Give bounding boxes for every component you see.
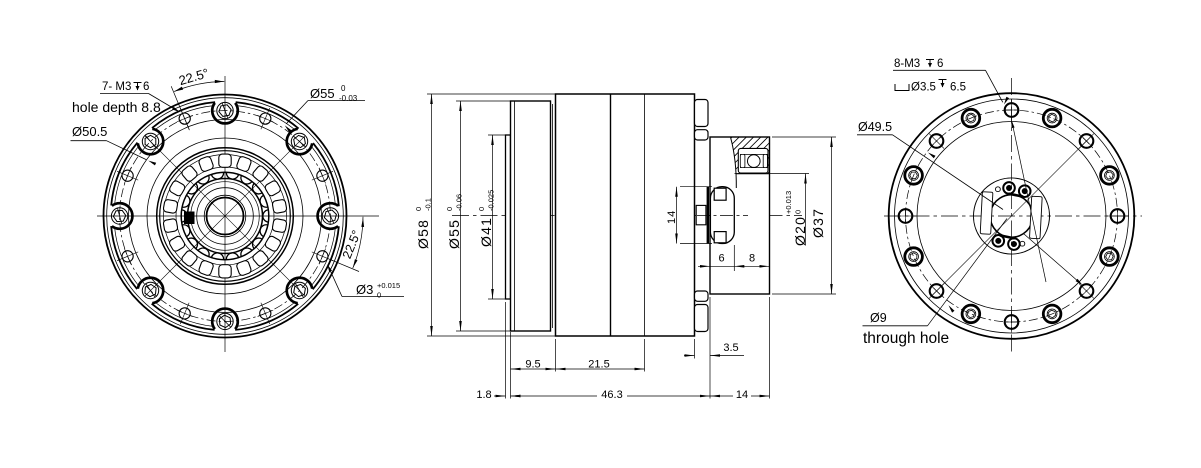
svg-text:0: 0 (477, 207, 486, 211)
hub right slot (1030, 196, 1043, 238)
label D49.5 (857, 120, 1003, 210)
svg-text:Ø3: Ø3 (356, 282, 373, 297)
svg-text:+0.015: +0.015 (377, 281, 400, 290)
output flange block D37 x14 (710, 137, 770, 294)
dimension D41 (477, 135, 506, 299)
svg-text:0: 0 (341, 84, 346, 93)
inner race keyway mark (184, 212, 195, 225)
M3 tapped hole at 22.5 deg (312, 168, 333, 184)
left view scallop inner thin circle (114, 105, 336, 327)
label counterbore D3.5 depth 6.5 (895, 80, 966, 94)
right view bolt circle D49.5 (dash-dot) (906, 110, 1118, 322)
svg-text:1.8: 1.8 (476, 389, 491, 401)
dimension D37 (772, 137, 836, 294)
screw pocket at 180 deg (112, 203, 133, 229)
label 7-M3 depth 6 (100, 81, 180, 112)
svg-text:14: 14 (666, 210, 678, 224)
center bore chamfer circle (204, 195, 246, 237)
right view vertical centerline (1011, 78, 1013, 354)
left view flange face circle (129, 120, 322, 313)
dimension D55 (445, 101, 511, 331)
label D3 +0.015 (327, 264, 404, 299)
hex socket screw at 90 deg (217, 102, 233, 118)
hub left slot (980, 192, 993, 234)
inner step circle (191, 182, 260, 251)
screw pocket at 270 deg (212, 309, 238, 330)
dimension 9.5 (511, 332, 556, 399)
middle view centerline (452, 215, 802, 217)
screw pocket at 0 deg (318, 203, 339, 229)
bearing cage inner circle (176, 167, 274, 265)
hex socket screw at 0 deg (322, 208, 338, 224)
screw pocket at 225 deg (138, 278, 163, 303)
centerline over hub (697, 215, 748, 217)
dimension 3.5 (684, 297, 744, 399)
hex socket screw at 45 deg (291, 133, 307, 149)
right M3 hole at 45 deg (1079, 134, 1094, 149)
center bore circle (207, 198, 244, 235)
svg-text:3.5: 3.5 (723, 342, 738, 354)
svg-text:7- M3: 7- M3 (102, 81, 131, 93)
middle view: side section of gearbox (414, 94, 836, 401)
right view: rear face of gearbox (857, 58, 1142, 354)
right view diagonal centerline NE-SW (932, 136, 1092, 296)
right through hole with screw at 67.5 deg (1043, 109, 1061, 127)
dimension 6 and 8 (698, 253, 770, 268)
right through hole with screw at 112.5 deg (962, 109, 980, 127)
svg-text:Ø41: Ø41 (478, 217, 494, 247)
right M3 hole at 315 deg (1079, 284, 1094, 299)
right M3 hole at 90 deg (1004, 100, 1019, 121)
svg-text:9.5: 9.5 (525, 359, 540, 371)
flexspline cup wall curve (731, 138, 737, 189)
dimension 46.3 (511, 387, 711, 401)
screw pocket at 45 deg (287, 129, 312, 154)
svg-text:Ø9: Ø9 (870, 311, 887, 325)
svg-text:14: 14 (736, 389, 748, 401)
right view outer circle (889, 93, 1135, 339)
M3 tapped hole at 112.5 deg (177, 108, 193, 129)
dimension D20 (735, 174, 810, 247)
M3 tapped hole at 337.5 deg (312, 249, 333, 265)
label 8-M3 depth 6 (893, 58, 1009, 105)
hub shoulder bold line (707, 187, 709, 244)
right M3 hole at 180 deg (895, 209, 916, 224)
left view scalloped circle D55 (111, 102, 340, 331)
svg-text:0: 0 (445, 207, 454, 211)
right through hole with screw at 22.5 deg (1101, 167, 1119, 185)
hex socket screw at 315 deg (291, 282, 307, 298)
svg-text:+0.013: +0.013 (784, 191, 793, 214)
svg-text:6.5: 6.5 (950, 82, 966, 94)
label D9 through hole (863, 219, 1008, 348)
label D50.5 (71, 124, 157, 165)
bore seat line (736, 173, 770, 175)
hub step circle (197, 188, 254, 245)
dimension 14 output (710, 297, 770, 401)
bearing inner race inner edge (188, 179, 263, 254)
svg-text:0: 0 (377, 291, 381, 300)
section hatch area (695, 137, 833, 174)
right through hole with screw at 247.5 deg (962, 305, 980, 323)
dimension 21.5 (556, 339, 645, 372)
svg-text:-0.03: -0.03 (339, 94, 358, 103)
right view rim circle (895, 99, 1129, 333)
right M3 hole at 135 deg (929, 134, 944, 149)
left view vertical centerline (224, 76, 226, 352)
right through hole with screw at 157.5 deg (905, 167, 923, 185)
svg-text:Ø55: Ø55 (446, 219, 462, 249)
svg-text:-0.1: -0.1 (424, 198, 433, 211)
svg-text:through hole: through hole (863, 330, 949, 347)
input shaft step block (696, 205, 706, 224)
ring gap lines (552, 104, 554, 328)
leader to 315deg M3 hole (1011, 120, 1082, 285)
hub face extension line (733, 245, 735, 271)
dimension 22.5 deg top (171, 65, 224, 130)
svg-text:Ø37: Ø37 (810, 208, 826, 238)
screw pocket at 315 deg (287, 278, 312, 303)
svg-text:Ø20: Ø20 (792, 216, 808, 246)
label D55 -0.03 (285, 84, 365, 132)
label hole depth 8.8 (72, 99, 161, 115)
left view: front face of gearbox (71, 65, 405, 352)
svg-text:-0.06: -0.06 (455, 194, 464, 211)
housing rim tab 1 (695, 100, 709, 127)
M3 tapped hole at 67.5 deg (258, 108, 274, 129)
hub circles and screws (967, 171, 1057, 261)
housing rim tab 3 (695, 291, 709, 301)
bearing inner race outer edge (181, 172, 269, 260)
svg-text:Ø49.5: Ø49.5 (858, 120, 892, 134)
housing joint line thin (644, 94, 646, 336)
dimension 22.5 deg right (329, 217, 364, 272)
hex socket screw at 180 deg (111, 208, 127, 224)
svg-text:Ø55: Ø55 (310, 86, 335, 101)
screw pocket at 90 deg (212, 103, 238, 124)
output bearing cross-section (738, 148, 768, 173)
input flange plate D41 x1.8 (506, 135, 511, 299)
svg-text:6: 6 (937, 58, 943, 70)
svg-text:0: 0 (414, 207, 423, 211)
left view outer flange circle D58 (104, 95, 347, 338)
M3 tapped hole at 247.5 deg (177, 303, 193, 324)
svg-text:46.3: 46.3 (601, 389, 622, 401)
body section D55 x9.5 (511, 101, 551, 331)
output hub capsule (710, 187, 734, 244)
svg-text:hole depth 8.8: hole depth 8.8 (72, 99, 161, 115)
housing rim tab 2 (695, 130, 709, 140)
M3 tapped hole at 157.5 deg (117, 168, 138, 184)
bearing cage outer circle (164, 155, 287, 278)
svg-text:8: 8 (749, 253, 755, 265)
svg-text:6: 6 (718, 253, 724, 265)
svg-text:Ø58: Ø58 (415, 219, 431, 249)
hex socket screw at 135 deg (142, 133, 158, 149)
left view diagonal centerline 45deg (145, 136, 305, 296)
right through hole with screw at 202.5 deg (905, 248, 923, 266)
svg-text:8-M3: 8-M3 (894, 58, 920, 70)
svg-text:21.5: 21.5 (588, 359, 609, 371)
svg-text:0: 0 (794, 210, 803, 214)
left view bolt circle D50.5 (dash-dot) (120, 111, 331, 322)
hex socket screw at 270 deg (217, 313, 233, 329)
left view horizontal centerline (97, 215, 379, 217)
hub key upper (714, 188, 726, 200)
bearing outer race inner edge (160, 151, 291, 282)
bearing rollers ring (163, 154, 287, 278)
right through hole with screw at 337.5 deg (1101, 248, 1119, 266)
hex socket screw at 225 deg (142, 282, 158, 298)
right M3 hole at 225 deg (929, 284, 944, 299)
hub key lower (714, 232, 726, 243)
M3 tapped hole at 202.5 deg (117, 249, 138, 265)
screw pocket at 135 deg (138, 129, 163, 154)
M3 tapped hole at 292.5 deg (258, 303, 274, 324)
svg-text:-0.025: -0.025 (487, 190, 496, 211)
right M3 hole at 270 deg (1004, 312, 1019, 333)
bearing outer race outer edge (157, 148, 294, 285)
svg-text:6: 6 (143, 81, 149, 93)
dimension D58 (414, 94, 556, 336)
housing joint line bold (610, 94, 612, 336)
main housing D58 x21.5 (556, 94, 695, 336)
dimension 1.8 (474, 302, 521, 401)
left view diagonal centerline 135deg (145, 136, 305, 296)
right M3 hole at 0 deg (1107, 209, 1128, 224)
dimension 14 spline (666, 187, 712, 244)
right view face circle (917, 122, 1106, 311)
svg-text:Ø50.5: Ø50.5 (72, 124, 107, 139)
housing rim tab 4 (695, 305, 709, 332)
svg-text:Ø3.5: Ø3.5 (911, 82, 936, 94)
right through hole with screw at 292.5 deg (1043, 305, 1061, 323)
right view horizontal centerline (884, 215, 1142, 217)
wave generator arcs ring (182, 173, 268, 260)
left view outer rim inner circle (107, 98, 344, 335)
left view housing step circle (147, 138, 303, 294)
